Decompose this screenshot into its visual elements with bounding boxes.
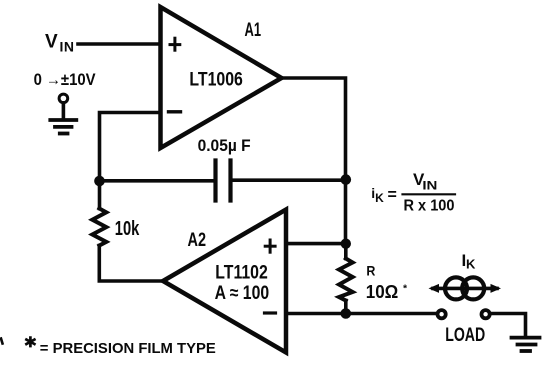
- wire A2 minus row to load terminal: [286, 312, 436, 316]
- label LT1102: [215, 262, 267, 283]
- wire VIN to A1 + input: [78, 42, 160, 46]
- svg-text:0.05µ F: 0.05µ F: [198, 136, 251, 155]
- junction node at left feedback: [94, 176, 105, 187]
- label 10k: [115, 218, 140, 240]
- wire right terminal to ground: [492, 314, 526, 336]
- ground (input): [50, 120, 76, 134]
- svg-text:K: K: [375, 191, 384, 205]
- svg-text:IN: IN: [60, 39, 75, 55]
- resistor R: [339, 259, 353, 301]
- label 0.05uF: [198, 136, 251, 155]
- wire down to A2 plus input row: [344, 180, 348, 244]
- load terminal left: [438, 310, 446, 318]
- label IK above current source: [462, 251, 477, 272]
- resistor 10k: [92, 209, 106, 246]
- svg-text:=: =: [388, 187, 397, 204]
- svg-text:= PRECISION FILM TYPE: = PRECISION FILM TYPE: [40, 340, 216, 357]
- wire junction to capacitor: [100, 179, 214, 183]
- svg-text:*: *: [403, 283, 408, 295]
- op-amp A2: [163, 210, 286, 353]
- svg-text:10Ω: 10Ω: [366, 281, 399, 302]
- junction node at A2 plus input: [341, 239, 351, 249]
- wire junction to 10k: [98, 181, 102, 209]
- ground (load): [512, 338, 540, 351]
- arrow left: [429, 284, 440, 293]
- wire terminal to ground: [62, 103, 66, 119]
- A1 plus pin mark: [170, 38, 180, 50]
- svg-text:R x 100: R x 100: [404, 197, 455, 214]
- svg-text:A2: A2: [188, 230, 207, 251]
- label LOAD: [445, 325, 485, 346]
- svg-text:10k: 10k: [115, 218, 140, 240]
- svg-text:V: V: [45, 32, 58, 53]
- wire junction to resistor R: [344, 244, 348, 259]
- wire 10k to A2 output: [99, 246, 162, 282]
- svg-text:A ≈ 100: A ≈ 100: [215, 283, 270, 304]
- wire A1 minus input feedback: [100, 113, 161, 182]
- label LT1006: [189, 69, 243, 90]
- op-amp A1: [161, 7, 282, 148]
- wire A1 output: [282, 78, 346, 180]
- wire capacitor to right junction: [233, 178, 346, 182]
- svg-text:LT1006: LT1006: [189, 69, 243, 90]
- footnote text: [26, 338, 215, 357]
- current source axis line: [433, 287, 497, 291]
- junction node A1 output / feedback: [341, 174, 352, 185]
- load terminal right: [482, 310, 490, 318]
- label R: [366, 263, 375, 279]
- svg-text:R: R: [366, 263, 375, 279]
- current source symbol: [445, 277, 484, 299]
- node VIN label: [45, 32, 74, 55]
- svg-text:IN: IN: [422, 179, 437, 193]
- A2 plus pin mark: [265, 240, 275, 252]
- svg-text:K: K: [466, 257, 476, 272]
- junction node at A2 minus row: [341, 308, 352, 319]
- A1 minus pin mark: [169, 110, 181, 113]
- label 0 to +/-10V: [34, 70, 97, 89]
- svg-text:A1: A1: [245, 20, 262, 41]
- formula iK = VIN / (R x 100): [371, 170, 454, 214]
- wire A2 plus input: [286, 242, 346, 246]
- label A1: [245, 20, 262, 41]
- wire resistor to minus row: [344, 301, 348, 314]
- capacitor C 0.05uF: [216, 161, 231, 201]
- fraction bar: [403, 193, 456, 195]
- arrow right: [491, 284, 502, 293]
- footnote tick mark: [1, 339, 3, 344]
- svg-text:LOAD: LOAD: [445, 325, 485, 346]
- svg-text:LT1102: LT1102: [215, 262, 267, 283]
- label A approx 100: [215, 283, 270, 304]
- A2 minus pin mark: [265, 311, 276, 314]
- svg-text:0 →±10V: 0 →±10V: [34, 70, 97, 89]
- label A2: [188, 230, 207, 251]
- input ground terminal circle: [59, 94, 68, 103]
- label 10 ohm: [366, 281, 408, 302]
